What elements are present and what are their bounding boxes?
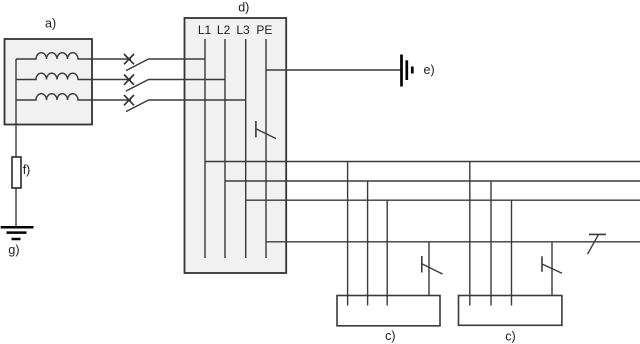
svg-text:c): c) xyxy=(505,330,515,344)
svg-text:L3: L3 xyxy=(236,23,250,37)
svg-text:g): g) xyxy=(8,243,19,257)
svg-text:d): d) xyxy=(238,0,249,14)
svg-text:L2: L2 xyxy=(217,23,231,37)
svg-text:PE: PE xyxy=(256,23,272,37)
svg-text:f): f) xyxy=(23,163,31,177)
svg-text:e): e) xyxy=(424,63,435,77)
svg-text:c): c) xyxy=(385,329,395,343)
svg-text:L1: L1 xyxy=(198,23,212,37)
svg-text:a): a) xyxy=(45,17,56,31)
